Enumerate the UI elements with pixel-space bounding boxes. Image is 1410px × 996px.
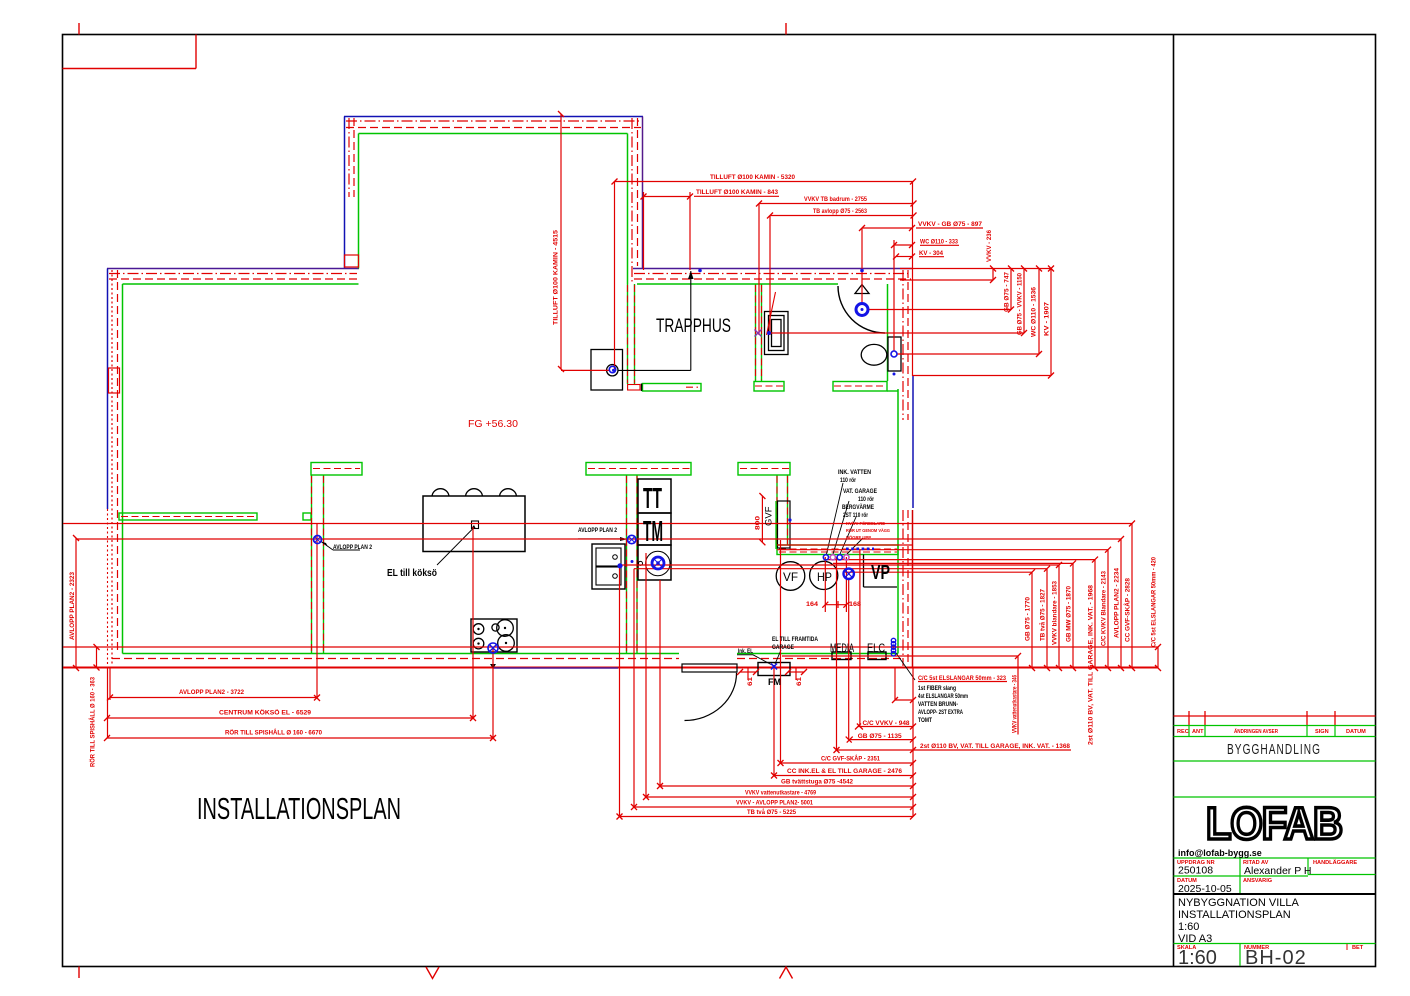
svg-text:C/C GVF-SKÅP - 2351: C/C GVF-SKÅP - 2351 xyxy=(821,754,880,763)
svg-text:GB tvättstuga Ø75 -4542: GB tvättstuga Ø75 -4542 xyxy=(781,779,853,786)
svg-text:EL TILL FRAMTIDA: EL TILL FRAMTIDA xyxy=(772,636,818,643)
svg-text:ANT: ANT xyxy=(1192,729,1204,735)
svg-text:TB två Ø75 - 1827: TB två Ø75 - 1827 xyxy=(1039,589,1047,641)
svg-text:164: 164 xyxy=(806,601,818,608)
svg-text:VVKV - 236: VVKV - 236 xyxy=(986,230,993,262)
svg-text:EL till köksö: EL till köksö xyxy=(387,568,437,579)
svg-text:C/C KVKV Blandare - 2143: C/C KVKV Blandare - 2143 xyxy=(1101,571,1108,646)
svg-text:ÄNDRINGEN AVSER: ÄNDRINGEN AVSER xyxy=(1234,728,1278,735)
svg-text:MEDIA: MEDIA xyxy=(830,641,854,655)
svg-text:WC Ø110 - 333: WC Ø110 - 333 xyxy=(920,239,958,246)
svg-text:AVLOPP PLAN 2: AVLOPP PLAN 2 xyxy=(333,544,372,551)
svg-text:KV - 304: KV - 304 xyxy=(919,250,943,257)
svg-text:TRAPPHUS: TRAPPHUS xyxy=(656,316,731,337)
svg-text:168: 168 xyxy=(849,601,861,608)
svg-text:AVLOPP PLAN 2: AVLOPP PLAN 2 xyxy=(578,527,617,534)
svg-text:GB MW Ø75 - 1870: GB MW Ø75 - 1870 xyxy=(1066,586,1073,642)
svg-text:TILLUFT Ø100 KAMIN - 843: TILLUFT Ø100 KAMIN - 843 xyxy=(696,189,778,196)
svg-text:VAT. GARAGE: VAT. GARAGE xyxy=(843,488,877,495)
svg-text:VF: VF xyxy=(783,570,798,584)
svg-text:BH-02: BH-02 xyxy=(1245,947,1307,969)
svg-text:ELC: ELC xyxy=(867,641,885,655)
svg-text:INK. VATTEN: INK. VATTEN xyxy=(838,469,871,476)
svg-text:GARAGE: GARAGE xyxy=(772,644,794,651)
svg-text:110 rör: 110 rör xyxy=(858,496,874,503)
svg-text:ANSVARIG: ANSVARIG xyxy=(1243,878,1272,884)
svg-text:TM: TM xyxy=(643,516,663,548)
svg-text:info@lofab-bygg.se: info@lofab-bygg.se xyxy=(1178,848,1262,858)
svg-text:C/C VVKV - 948: C/C VVKV - 948 xyxy=(863,720,910,727)
svg-text:GB Ø75 - 1770: GB Ø75 - 1770 xyxy=(1025,597,1032,641)
svg-text:TB avlopp Ø75 - 2563: TB avlopp Ø75 - 2563 xyxy=(813,208,867,215)
svg-text:VID A3: VID A3 xyxy=(1178,933,1212,945)
svg-text:GB Ø75 - 1135: GB Ø75 - 1135 xyxy=(858,733,902,740)
svg-text:KV - 1907: KV - 1907 xyxy=(1044,302,1051,336)
svg-text:INSTALLATIONSPLAN: INSTALLATIONSPLAN xyxy=(1178,909,1291,921)
svg-text:GB Ø75 - VVKV - 1150: GB Ø75 - VVKV - 1150 xyxy=(1017,273,1024,335)
svg-text:VATTEN BRUNN-: VATTEN BRUNN- xyxy=(918,701,958,708)
svg-text:VVKV blandare - 1853: VVKV blandare - 1853 xyxy=(1052,581,1059,645)
svg-text:LOFAB: LOFAB xyxy=(1206,798,1342,849)
svg-text:WC Ø110 - 1536: WC Ø110 - 1536 xyxy=(1031,287,1038,337)
svg-text:RÖR UT GENOM VÄGG: RÖR UT GENOM VÄGG xyxy=(846,527,890,534)
svg-text:1:60: 1:60 xyxy=(1178,921,1199,933)
svg-text:2ST 110 rör: 2ST 110 rör xyxy=(843,512,868,519)
svg-text:DATUM: DATUM xyxy=(1346,729,1366,735)
svg-text:61: 61 xyxy=(796,677,803,686)
svg-text:AVLOPP- 2ST EXTRA: AVLOPP- 2ST EXTRA xyxy=(918,709,963,716)
svg-text:VVKV TB badrum - 2755: VVKV TB badrum - 2755 xyxy=(804,196,867,203)
svg-text:AVLOPP PLAN2 - 2323: AVLOPP PLAN2 - 2323 xyxy=(69,572,76,640)
svg-text:VP: VP xyxy=(871,562,890,584)
svg-text:RÖR TILL SPISHÅLL Ø 160 - 363: RÖR TILL SPISHÅLL Ø 160 - 363 xyxy=(88,677,97,767)
svg-text:1:60: 1:60 xyxy=(1178,947,1217,969)
svg-text:NYBYGGNATION VILLA: NYBYGGNATION VILLA xyxy=(1178,897,1299,909)
svg-text:TILLUFT Ø100 KAMIN - 5320: TILLUFT Ø100 KAMIN - 5320 xyxy=(710,174,795,181)
svg-text:C/C 5st ELSLANGAR 50mm - 323: C/C 5st ELSLANGAR 50mm - 323 xyxy=(918,675,1006,682)
svg-text:VVKV vattenutkastare - 4769: VVKV vattenutkastare - 4769 xyxy=(745,790,816,797)
svg-text:AVLOPP PLAN2 - 2234: AVLOPP PLAN2 - 2234 xyxy=(1114,568,1121,638)
svg-text:TILLUFT Ø100 KAMIN - 4515: TILLUFT Ø100 KAMIN - 4515 xyxy=(553,230,560,325)
svg-text:110 rör: 110 rör xyxy=(840,477,856,484)
svg-text:GVF: GVF xyxy=(764,506,775,526)
svg-text:GB Ø75 - 747: GB Ø75 - 747 xyxy=(1004,272,1011,312)
svg-text:VVKV - AVLOPP PLAN2- 5001: VVKV - AVLOPP PLAN2- 5001 xyxy=(736,800,813,807)
svg-text:2st Ø110 BV, VAT. TILL GARAGE,: 2st Ø110 BV, VAT. TILL GARAGE, INK. VAT.… xyxy=(1088,585,1095,745)
svg-text:FG +56.30: FG +56.30 xyxy=(468,418,518,430)
svg-text:BYGGHANDLING: BYGGHANDLING xyxy=(1227,742,1321,758)
svg-text:800: 800 xyxy=(755,516,762,530)
svg-text:TOMT: TOMT xyxy=(918,717,932,724)
svg-text:2025-10-05: 2025-10-05 xyxy=(1178,883,1232,895)
svg-text:2st Ø110 BV, VAT. TILL GARAGE,: 2st Ø110 BV, VAT. TILL GARAGE, INK. VAT.… xyxy=(920,743,1070,750)
svg-text:AVLOPP PLAN2 - 3722: AVLOPP PLAN2 - 3722 xyxy=(179,689,244,696)
svg-text:REC: REC xyxy=(1177,729,1189,735)
svg-text:TB två Ø75 - 5225: TB två Ø75 - 5225 xyxy=(747,808,796,816)
svg-text:4st ELSLANGAR 50mm: 4st ELSLANGAR 50mm xyxy=(918,693,968,700)
svg-text:RÖR TILL SPISHÅLL Ø 160 - 6670: RÖR TILL SPISHÅLL Ø 160 - 6670 xyxy=(225,728,322,737)
svg-text:Alexander P H: Alexander P H xyxy=(1244,865,1312,877)
svg-text:Ink. EL: Ink. EL xyxy=(738,648,753,655)
svg-text:CC INK.EL & EL TILL GARAGE - 2: CC INK.EL & EL TILL GARAGE - 2476 xyxy=(787,768,902,775)
svg-text:61: 61 xyxy=(747,677,754,686)
svg-text:KV/VV FÖRDELARE: KV/VV FÖRDELARE xyxy=(846,520,886,527)
svg-text:VVKV - GB Ø75 - 897: VVKV - GB Ø75 - 897 xyxy=(918,221,982,228)
svg-text:CC GVF-SKÅP - 2828: CC GVF-SKÅP - 2828 xyxy=(1123,578,1132,642)
svg-text:HÖGRE UPP: HÖGRE UPP xyxy=(846,534,872,541)
svg-text:BERGVÄRME: BERGVÄRME xyxy=(842,503,874,511)
svg-text:VVKV vattenutkastare - 346: VVKV vattenutkastare - 346 xyxy=(1012,675,1019,733)
svg-text:SIGN: SIGN xyxy=(1315,729,1329,735)
svg-text:C/C 5st ELSLANGAR 50mm - 420: C/C 5st ELSLANGAR 50mm - 420 xyxy=(1151,557,1158,647)
svg-text:BET: BET xyxy=(1352,945,1364,951)
svg-text:FM: FM xyxy=(768,677,781,687)
svg-text:TT: TT xyxy=(643,483,662,515)
svg-text:250108: 250108 xyxy=(1178,865,1213,877)
svg-text:CENTRUM KÖKSÖ EL - 6529: CENTRUM KÖKSÖ EL - 6529 xyxy=(219,708,311,717)
svg-text:1st FIBER slang: 1st FIBER slang xyxy=(918,685,956,692)
svg-text:HANDLÄGGARE: HANDLÄGGARE xyxy=(1313,859,1357,866)
svg-text:INSTALLATIONSPLAN: INSTALLATIONSPLAN xyxy=(197,791,401,826)
svg-text:HP: HP xyxy=(817,570,832,584)
